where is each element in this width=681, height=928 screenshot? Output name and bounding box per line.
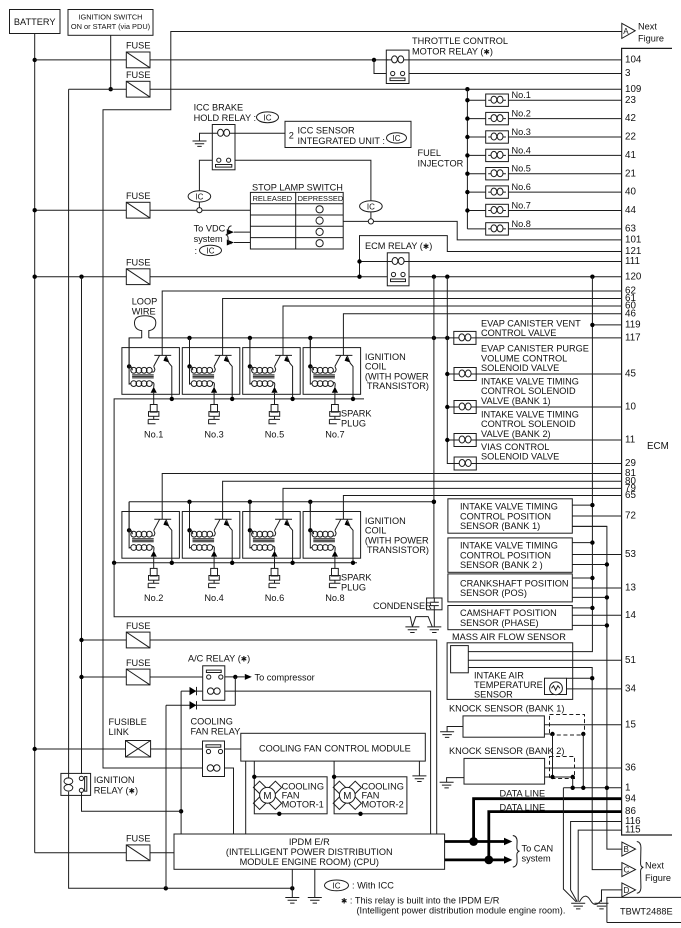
svg-text:IGNITION: IGNITION: [94, 775, 135, 785]
ground left under condenser: [405, 627, 419, 633]
wire battery main vertical: [34, 34, 36, 853]
svg-text:FUSE: FUSE: [126, 258, 151, 268]
node bus2 x189.5: [187, 500, 191, 504]
wire ignition switch drop: [110, 35, 112, 89]
intake valve timing control solenoid valve bank2: [445, 409, 622, 446]
node injector feed 3: [465, 135, 469, 139]
svg-text:No.3: No.3: [204, 429, 223, 439]
node fuse4 line junction x81.5: [79, 275, 83, 279]
spark plug No.4: [209, 568, 220, 587]
wire group ground line with hop: [114, 563, 432, 627]
svg-text:system: system: [194, 234, 223, 244]
svg-text:45: 45: [625, 369, 636, 380]
wire ignition trigger (pin 60): [283, 306, 622, 355]
wire AC coil output: [225, 691, 431, 834]
intake valve timing control position sensor bank2: [448, 538, 622, 572]
node battery-fuse1: [33, 58, 37, 62]
svg-text:VALVE (BANK 2): VALVE (BANK 2): [481, 429, 551, 439]
svg-text:INTAKE VALVE TIMING: INTAKE VALVE TIMING: [481, 376, 579, 386]
svg-text:40: 40: [625, 187, 636, 198]
node bus2 x249.9: [248, 500, 252, 504]
node pin119: [590, 323, 594, 327]
node fuse4 line junction x34.7: [33, 275, 37, 279]
svg-text:Next: Next: [638, 22, 657, 32]
injector No.4: [467, 145, 621, 161]
svg-text:Figure: Figure: [645, 873, 671, 883]
IPDM ER box: [174, 834, 445, 869]
node diode2 ground junction: [164, 886, 168, 890]
node bus1 x310.3: [308, 336, 312, 340]
ignition switch SW1: [68, 10, 153, 36]
wire ignition trigger (pin 81): [162, 474, 621, 520]
wire fuse2 line to pin 109: [69, 88, 622, 90]
data line 86: [445, 802, 622, 864]
wire pin119 line: [592, 324, 621, 326]
svg-text:IC: IC: [367, 202, 375, 211]
svg-text:system: system: [522, 853, 551, 863]
injector No.1: [467, 90, 621, 106]
node fuse4 line junction x592.4: [590, 275, 594, 279]
svg-text:FUSE: FUSE: [126, 191, 151, 201]
svg-text:21: 21: [625, 168, 636, 179]
svg-text:ON or START (via PDU): ON or START (via PDU): [71, 22, 150, 31]
fuse F2: [126, 70, 151, 97]
diode D2: [166, 677, 235, 710]
wire fusible link line: [35, 748, 203, 750]
mass air flow sensor: [447, 632, 622, 870]
wire ignition relay coil vertical: [69, 89, 293, 888]
svg-text:Figure: Figure: [638, 34, 664, 44]
svg-text:: With ICC: : With ICC: [352, 881, 394, 891]
svg-text:36: 36: [625, 763, 636, 774]
svg-text:IC: IC: [207, 246, 215, 255]
ignition coil No.8: [303, 502, 361, 569]
svg-text:No.2: No.2: [144, 593, 163, 603]
svg-text:No.3: No.3: [512, 127, 531, 137]
fuse F3: [126, 191, 151, 218]
svg-text:INTAKE VALVE TIMING: INTAKE VALVE TIMING: [460, 502, 558, 512]
svg-text:No.5: No.5: [512, 164, 531, 174]
relay AC: [203, 666, 225, 701]
injector No.3: [467, 127, 621, 143]
svg-text:THROTTLE CONTROL: THROTTLE CONTROL: [412, 36, 508, 46]
wire top line to next-figure A and fan relay coil: [103, 32, 622, 769]
battery B1: [10, 10, 61, 34]
note star relay: [341, 895, 565, 915]
node bottom bus2 x292.59999999999997: [290, 561, 294, 565]
ignition coil No.1: [122, 338, 179, 405]
svg-text:BATTERY: BATTERY: [14, 17, 56, 27]
node bus2 feed: [432, 500, 436, 504]
svg-text:SENSOR (BANK 2 ): SENSOR (BANK 2 ): [460, 560, 543, 570]
svg-text:To VDC: To VDC: [194, 224, 226, 234]
svg-text:42: 42: [625, 113, 636, 124]
svg-text:MASS AIR FLOW SENSOR: MASS AIR FLOW SENSOR: [452, 632, 566, 642]
svg-text:No.7: No.7: [512, 201, 531, 211]
ignition coil No.2: [122, 502, 179, 569]
svg-text:No.2: No.2: [512, 109, 531, 119]
ICC brake hold relay label: [194, 103, 279, 124]
svg-text:MOTOR-2: MOTOR-2: [362, 800, 404, 810]
svg-text:No.1: No.1: [144, 429, 163, 439]
wire ECM relay coil stub: [360, 261, 388, 263]
stop lamp switch: [250, 183, 343, 250]
svg-text:EVAP CANISTER VENT: EVAP CANISTER VENT: [481, 318, 581, 328]
svg-text:10: 10: [625, 402, 636, 413]
wire throttle relay contact feed: [374, 60, 386, 74]
svg-text:C: C: [624, 866, 630, 875]
svg-text:KNOCK SENSOR (BANK 2): KNOCK SENSOR (BANK 2): [449, 746, 564, 756]
wire ECM relay feed elbow to pin 121: [360, 236, 622, 277]
svg-text:46: 46: [625, 308, 636, 319]
node bottom bus1 x292.59999999999997: [290, 397, 294, 401]
svg-text:To compressor: To compressor: [255, 672, 315, 682]
wire fuse7 line: [35, 852, 174, 854]
svg-text:94: 94: [625, 793, 636, 804]
svg-text:IC: IC: [264, 113, 272, 122]
svg-text:FUEL: FUEL: [418, 148, 442, 158]
svg-text:14: 14: [625, 610, 636, 621]
svg-text:TBWT2488E: TBWT2488E: [620, 906, 673, 916]
svg-text:119: 119: [625, 320, 641, 331]
node bottom bus2 x171.8: [170, 561, 174, 565]
next figure brace bottom: [637, 842, 644, 894]
svg-text:(INTELLIGENT POWER DISTRIBUTIO: (INTELLIGENT POWER DISTRIBUTION: [226, 847, 393, 857]
wire ignition trigger (pin 65): [343, 496, 621, 520]
svg-text:ECM RELAY (✱): ECM RELAY (✱): [365, 241, 432, 251]
condenser C1: [373, 598, 442, 627]
wire ICC contact right to IC oval: [235, 160, 382, 224]
svg-text:ICC BRAKE: ICC BRAKE: [194, 103, 244, 113]
svg-text:FUSE: FUSE: [126, 70, 151, 80]
next figure label bottom: [645, 861, 671, 884]
svg-text:34: 34: [625, 684, 636, 695]
svg-text:Next: Next: [645, 861, 664, 871]
fuse F6: [126, 658, 151, 685]
fusible link label: [109, 717, 147, 737]
relay ECM: [387, 253, 409, 286]
relay ignition: [61, 773, 91, 795]
relay throttle control motor: [386, 50, 409, 83]
svg-text:COIL: COIL: [365, 362, 386, 372]
node injector feed 2: [465, 116, 469, 120]
To CAN system brace: [513, 836, 553, 868]
injector No.7: [467, 201, 621, 217]
svg-text:IGNITION: IGNITION: [365, 516, 406, 526]
svg-text:No.4: No.4: [512, 145, 531, 155]
svg-text:DEPRESSED: DEPRESSED: [298, 194, 344, 203]
svg-text:No.6: No.6: [512, 182, 531, 192]
node bottom bus2 x232.20000000000002: [230, 561, 234, 565]
note with ICC: [325, 880, 395, 891]
svg-text:2: 2: [289, 131, 294, 141]
svg-text:53: 53: [625, 549, 636, 560]
ground ICC relay coil: [193, 133, 213, 146]
svg-text:41: 41: [625, 150, 636, 161]
node bottom bus1 x232.20000000000002: [230, 397, 234, 401]
svg-text:MODULE ENGINE ROOM) (CPU): MODULE ENGINE ROOM) (CPU): [240, 857, 379, 867]
svg-text:CONTROL SOLENOID: CONTROL SOLENOID: [481, 419, 576, 429]
svg-text:PLUG: PLUG: [341, 583, 366, 593]
svg-text:104: 104: [625, 55, 642, 66]
svg-text:CONTROL SOLENOID: CONTROL SOLENOID: [481, 386, 576, 396]
svg-text:VIAS CONTROL: VIAS CONTROL: [481, 442, 549, 452]
wire arrow D feed from ground: [602, 890, 622, 902]
svg-text:(WITH POWER: (WITH POWER: [365, 535, 429, 545]
node fuse4 line junction x447.3: [445, 275, 449, 279]
wire ignition trigger (pin 61): [223, 299, 622, 356]
svg-text:IC: IC: [333, 881, 341, 890]
svg-text:FUSE: FUSE: [126, 41, 151, 51]
wire injector feed vertical: [466, 89, 468, 229]
ignition coil group2 label: [365, 516, 429, 555]
svg-text:FUSE: FUSE: [126, 621, 151, 631]
svg-text:KNOCK SENSOR (BANK 1): KNOCK SENSOR (BANK 1): [449, 704, 564, 714]
wire ignition trigger (pin 46): [343, 314, 621, 356]
svg-text:A: A: [623, 27, 629, 36]
node battery-fuse3: [33, 208, 37, 212]
svg-text:SENSOR (PHASE): SENSOR (PHASE): [460, 618, 539, 628]
svg-text:11: 11: [625, 435, 635, 446]
svg-text:MOTOR RELAY (✱): MOTOR RELAY (✱): [412, 47, 493, 57]
svg-text:72: 72: [625, 511, 636, 522]
injector No.2: [467, 109, 621, 125]
svg-text:INTAKE VALVE TIMING: INTAKE VALVE TIMING: [481, 409, 579, 419]
fusible link FL: [126, 741, 151, 758]
node bus2 x433.9: [432, 500, 436, 504]
ECM connector line: [622, 48, 672, 835]
wire ignition trigger (pin 62): [162, 291, 621, 355]
wire fan relay contact to module: [225, 748, 241, 750]
svg-text:15: 15: [625, 719, 636, 730]
svg-text:No.8: No.8: [512, 219, 531, 229]
svg-text:101: 101: [625, 235, 641, 246]
wire pin 1 line: [563, 787, 621, 789]
wire ignition bus 2: [129, 502, 434, 531]
svg-text:RELAY (✱): RELAY (✱): [94, 786, 138, 796]
VIAS control solenoid valve: [454, 442, 621, 470]
spark plug label group1: [341, 409, 372, 429]
ICC sensor integrated unit: [285, 121, 411, 147]
wire sensor ground vertical x607: [572, 526, 622, 849]
node injector feed 1: [465, 98, 469, 102]
svg-text:No.6: No.6: [265, 593, 284, 603]
svg-text:TRANSISTOR): TRANSISTOR): [367, 381, 429, 391]
title block TBWT2488E: [607, 897, 681, 922]
cooling fan relay label: [191, 717, 241, 737]
intake valve timing control position sensor bank1: [448, 499, 622, 533]
svg-text:TEMPERATURE: TEMPERATURE: [474, 680, 543, 690]
node bottom bus2 x353.0: [351, 561, 355, 565]
node injector feed 4: [465, 153, 469, 157]
svg-text:INTEGRATED UNIT :: INTEGRATED UNIT :: [298, 136, 385, 146]
svg-text:VALVE (BANK 1): VALVE (BANK 1): [481, 396, 551, 406]
svg-text:SOLENOID VALVE: SOLENOID VALVE: [481, 363, 559, 373]
ground bottom left: [571, 903, 585, 909]
svg-text:No.7: No.7: [325, 429, 344, 439]
wire sensor supply vertical x592: [468, 277, 592, 652]
wire ignition trigger (pin 80): [223, 481, 622, 519]
wire stop lamp output to pin 101: [343, 221, 621, 240]
spark plug No.8: [329, 568, 340, 587]
wire fuse4 line to ECM relay contact and pin 120: [35, 276, 622, 278]
knock sensor bank1: [440, 704, 621, 788]
ignition relay label: [94, 775, 138, 796]
svg-text:STOP LAMP SWITCH: STOP LAMP SWITCH: [252, 183, 343, 193]
wire solenoid feed vertical x447: [447, 277, 454, 464]
knock sensor bank2: [440, 746, 622, 788]
spark plug No.7: [329, 405, 340, 424]
ground right under condenser: [427, 627, 441, 633]
wire bus1 feed drops: [190, 338, 311, 348]
node fuse4 line junction x359.5: [357, 275, 361, 279]
svg-text:CAMSHAFT POSITION: CAMSHAFT POSITION: [460, 608, 557, 618]
svg-text:120: 120: [625, 271, 642, 282]
ignition coil No.3: [182, 338, 240, 405]
svg-text:WIRE: WIRE: [132, 307, 156, 317]
node injector feed 5: [465, 172, 469, 176]
wire fuse6 line to AC relay: [82, 676, 203, 678]
wire stop lamp to VDC arrows: [194, 224, 251, 257]
svg-text:COIL: COIL: [365, 526, 386, 536]
svg-text:PLUG: PLUG: [341, 419, 366, 429]
svg-text:109: 109: [625, 84, 641, 95]
wire ignition bottom bus 1: [114, 399, 364, 563]
svg-text:No.8: No.8: [325, 593, 344, 603]
node IPDM ground stem junction: [290, 886, 294, 890]
wire pin1 elbow to ground: [563, 788, 576, 902]
wire pin 116 line: [571, 822, 622, 902]
wire module drops: [246, 761, 334, 834]
svg-text:SENSOR (POS): SENSOR (POS): [460, 588, 527, 598]
data line 94: [445, 788, 622, 846]
svg-text:M: M: [343, 791, 351, 802]
node injector feed 6: [465, 190, 469, 194]
svg-text:SPARK: SPARK: [341, 573, 372, 583]
ground IPDM 2: [308, 869, 322, 903]
svg-text:DATA LINE: DATA LINE: [500, 788, 546, 798]
svg-text:1: 1: [625, 782, 630, 793]
svg-text:No.1: No.1: [512, 90, 531, 100]
svg-text:CONTROL POSITION: CONTROL POSITION: [460, 511, 551, 521]
wire relay output vertical x434: [433, 277, 435, 598]
wire ignition bottom bus 2: [114, 562, 357, 564]
node injector feed junction: [465, 87, 469, 91]
wire ignition trigger (pin 79): [283, 488, 622, 519]
svg-text:FAN RELAY: FAN RELAY: [191, 727, 241, 737]
ignition coil No.4: [182, 502, 240, 569]
camshaft position sensor: [448, 606, 622, 630]
svg-text:COOLING FAN CONTROL MODULE: COOLING FAN CONTROL MODULE: [259, 743, 411, 753]
relay cooling fan: [203, 741, 225, 777]
svg-text:IGNITION: IGNITION: [365, 352, 406, 362]
svg-text:D: D: [624, 886, 630, 895]
svg-text:IGNITION SWITCH: IGNITION SWITCH: [78, 13, 142, 22]
wire ignition bus 1: [129, 338, 454, 367]
wire fuse5/6 feed vertical x81.5: [81, 277, 83, 774]
svg-text:CONTROL POSITION: CONTROL POSITION: [460, 550, 551, 560]
wire diode2 vertical: [165, 705, 167, 888]
node injector feed 7: [465, 208, 469, 212]
spark plug No.2: [148, 568, 159, 587]
svg-text:CONTROL VALVE: CONTROL VALVE: [481, 328, 556, 338]
intake valve timing control solenoid valve bank1: [445, 376, 622, 413]
svg-text:FUSIBLE: FUSIBLE: [109, 717, 147, 727]
svg-text:44: 44: [625, 205, 636, 216]
intake air temperature sensor: [474, 670, 622, 699]
wire fuse1 line: [35, 59, 387, 61]
svg-text:No.5: No.5: [265, 429, 284, 439]
svg-text:INTAKE AIR: INTAKE AIR: [474, 670, 524, 680]
spark plug label group2: [341, 573, 372, 593]
svg-text:CONDENSER: CONDENSER: [373, 601, 432, 611]
next figure arrow C: [622, 863, 636, 877]
node bus1 x249.9: [248, 336, 252, 340]
svg-text:SOLENOID VALVE: SOLENOID VALVE: [481, 452, 559, 462]
spark plug No.6: [269, 568, 280, 587]
fuse F1: [126, 41, 151, 68]
svg-text:A/C RELAY (✱): A/C RELAY (✱): [188, 654, 250, 664]
svg-text:IC: IC: [195, 192, 203, 201]
svg-text:SENSOR: SENSOR: [474, 690, 513, 700]
svg-text:CRANKSHAFT POSITION: CRANKSHAFT POSITION: [460, 578, 569, 588]
svg-text::: :: [195, 246, 198, 256]
svg-text:✱ : This relay is built into t: ✱ : This relay is built into the IPDM E/…: [341, 895, 500, 905]
node fuse4 line junction x433.9: [432, 275, 436, 279]
ignition coil No.6: [243, 502, 301, 569]
svg-text:111: 111: [625, 256, 640, 267]
spark plug No.5: [269, 405, 280, 424]
wire fan relay coil output: [225, 768, 234, 834]
svg-text:ICC SENSOR: ICC SENSOR: [298, 126, 356, 136]
node ECM relay coil junction: [357, 259, 361, 263]
injector No.8: [467, 219, 621, 235]
svg-text:COOLING: COOLING: [191, 717, 233, 727]
wire ignition relay contact output: [82, 792, 182, 811]
svg-text:22: 22: [625, 132, 636, 143]
svg-text:13: 13: [625, 583, 636, 594]
injector No.5: [467, 164, 621, 180]
svg-text:3: 3: [625, 68, 631, 79]
EVAP canister purge volume control solenoid valve: [445, 344, 622, 381]
next figure arrow B: [622, 842, 636, 856]
fuse F4: [126, 258, 151, 285]
ignition coil No.5: [243, 338, 301, 405]
ground module: [412, 761, 426, 781]
spark plug No.1: [148, 405, 159, 424]
ignition coil No.7: [303, 338, 361, 405]
fuse F5: [126, 621, 151, 648]
svg-text:SPARK: SPARK: [341, 409, 372, 419]
node bus1 x447.3: [445, 336, 449, 340]
svg-text:(Intelligent power distributio: (Intelligent power distribution module e…: [357, 906, 566, 916]
wire AC contact to compressor: [225, 676, 245, 678]
svg-text:M: M: [263, 791, 271, 802]
wire ICC coil to integrated unit: [235, 132, 285, 134]
svg-text:LOOP: LOOP: [132, 297, 158, 307]
node ignition-fuse2: [109, 87, 113, 91]
ignition coil group1 label: [365, 352, 429, 391]
diode D1: [181, 687, 203, 695]
svg-text:IPDM E/R: IPDM E/R: [289, 837, 330, 847]
svg-text:FUSE: FUSE: [126, 658, 151, 668]
ECM pin number labels: [625, 55, 642, 836]
svg-text:LINK: LINK: [109, 727, 130, 737]
next figure arrow D: [622, 883, 636, 897]
cooling fan control module: [241, 733, 425, 761]
svg-text:(WITH POWER: (WITH POWER: [365, 371, 429, 381]
svg-text:ECM: ECM: [647, 441, 669, 452]
